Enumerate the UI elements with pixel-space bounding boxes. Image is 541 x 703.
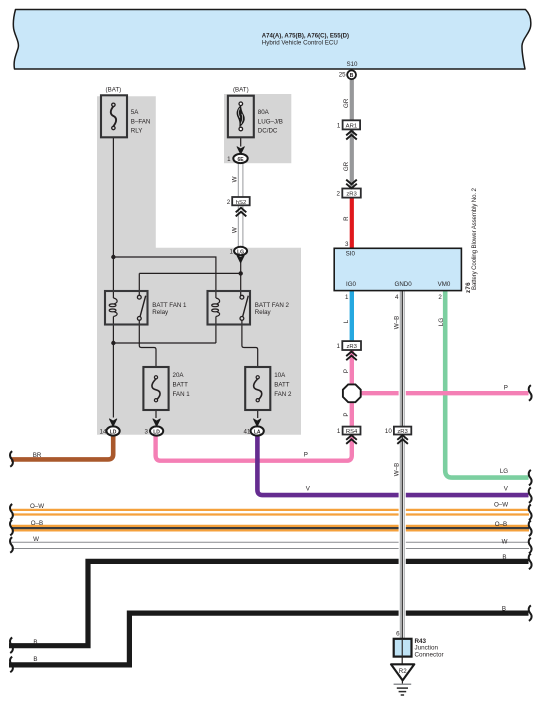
svg-text:O–B: O–B xyxy=(495,521,507,528)
svg-text:Connector: Connector xyxy=(415,651,444,658)
svg-text:GR: GR xyxy=(343,98,350,108)
svg-text:LG: LG xyxy=(237,249,244,255)
svg-text:P: P xyxy=(343,369,350,373)
svg-text:L: L xyxy=(343,319,350,323)
svg-text:O–W: O–W xyxy=(30,503,44,510)
svg-text:zR3: zR3 xyxy=(346,192,357,198)
svg-text:BATT: BATT xyxy=(173,382,189,389)
svg-text:41: 41 xyxy=(244,429,251,436)
svg-text:V: V xyxy=(306,485,311,492)
svg-text:LG: LG xyxy=(438,318,445,326)
svg-text:S10: S10 xyxy=(346,61,358,68)
svg-text:DC/DC: DC/DC xyxy=(258,127,278,134)
svg-text:O–B: O–B xyxy=(31,520,43,527)
svg-text:25: 25 xyxy=(339,72,346,79)
svg-text:P: P xyxy=(343,412,350,416)
svg-text:1: 1 xyxy=(227,156,231,163)
svg-text:BATT: BATT xyxy=(274,382,290,389)
svg-text:6E: 6E xyxy=(237,157,244,163)
svg-text:Hybrid Vehicle Control ECU: Hybrid Vehicle Control ECU xyxy=(262,39,338,46)
svg-text:10A: 10A xyxy=(274,372,286,379)
svg-text:GND0: GND0 xyxy=(395,281,413,288)
svg-text:FAN 1: FAN 1 xyxy=(173,391,191,398)
svg-text:LUG–J/B: LUG–J/B xyxy=(258,118,283,125)
svg-text:RLY: RLY xyxy=(131,127,143,134)
svg-text:VM0: VM0 xyxy=(438,281,451,288)
svg-text:V: V xyxy=(504,485,509,492)
svg-text:LD: LD xyxy=(110,429,117,435)
svg-text:P: P xyxy=(504,384,508,391)
svg-text:W: W xyxy=(502,539,508,546)
svg-text:B: B xyxy=(33,639,37,646)
svg-text:R2: R2 xyxy=(399,668,407,675)
svg-text:W: W xyxy=(33,536,39,543)
svg-text:3: 3 xyxy=(345,241,349,248)
svg-text:1: 1 xyxy=(337,343,341,350)
svg-text:hS2: hS2 xyxy=(236,200,246,206)
svg-text:W: W xyxy=(232,227,239,233)
svg-text:LA: LA xyxy=(254,429,261,435)
svg-text:80A: 80A xyxy=(258,109,270,116)
svg-text:B: B xyxy=(502,554,506,561)
svg-text:zR3: zR3 xyxy=(346,344,357,350)
svg-text:O–W: O–W xyxy=(494,501,508,508)
svg-text:(BAT): (BAT) xyxy=(233,86,249,93)
svg-text:AR1: AR1 xyxy=(346,123,357,129)
svg-text:FAN 2: FAN 2 xyxy=(274,391,292,398)
svg-text:(BAT): (BAT) xyxy=(106,86,122,93)
svg-text:Relay: Relay xyxy=(152,309,169,316)
svg-text:B–FAN: B–FAN xyxy=(131,118,151,125)
svg-text:10: 10 xyxy=(385,428,392,435)
svg-text:B: B xyxy=(350,73,354,79)
svg-text:6: 6 xyxy=(396,631,400,638)
svg-text:5A: 5A xyxy=(131,109,139,116)
svg-text:4: 4 xyxy=(395,294,399,301)
svg-text:IG0: IG0 xyxy=(346,281,357,288)
svg-text:W–B: W–B xyxy=(393,316,400,329)
svg-text:P: P xyxy=(304,452,308,459)
svg-text:1: 1 xyxy=(337,122,341,129)
svg-text:14: 14 xyxy=(100,429,107,436)
svg-text:B: B xyxy=(502,606,506,613)
svg-text:3: 3 xyxy=(144,429,148,436)
svg-text:2: 2 xyxy=(227,199,231,206)
svg-text:LD: LD xyxy=(153,429,160,435)
svg-text:B: B xyxy=(33,656,37,663)
svg-text:RS4: RS4 xyxy=(346,429,358,435)
svg-text:BR: BR xyxy=(33,452,42,459)
svg-text:1: 1 xyxy=(345,294,349,301)
svg-text:2: 2 xyxy=(337,191,341,198)
svg-text:LG: LG xyxy=(500,468,508,475)
svg-text:R: R xyxy=(343,216,350,221)
svg-text:W–B: W–B xyxy=(393,463,400,476)
svg-text:GR: GR xyxy=(343,161,350,171)
svg-text:1: 1 xyxy=(230,249,234,256)
svg-text:Relay: Relay xyxy=(255,309,272,316)
svg-text:1: 1 xyxy=(337,428,341,435)
svg-text:Battery Cooling Blower Assembl: Battery Cooling Blower Assembly No. 2 xyxy=(471,187,478,290)
svg-text:zR3: zR3 xyxy=(397,429,408,435)
svg-text:20A: 20A xyxy=(173,372,185,379)
svg-text:SI0: SI0 xyxy=(346,250,356,257)
svg-text:2: 2 xyxy=(438,294,442,301)
svg-text:W: W xyxy=(232,176,239,182)
